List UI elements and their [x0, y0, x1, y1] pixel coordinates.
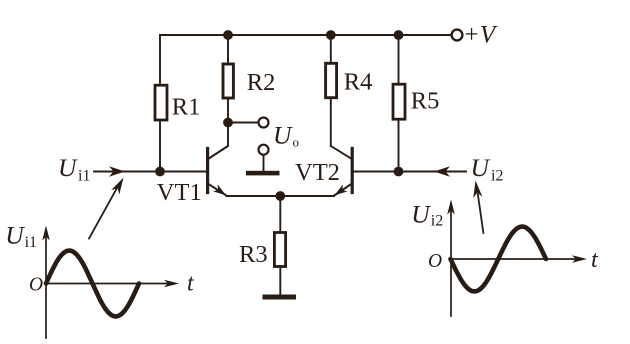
resistor R4 — [326, 63, 337, 97]
wire: R2 branch (rail to collector node) — [227, 35, 229, 123]
wire: +V supply top rail — [160, 34, 451, 36]
svg-text:U: U — [471, 153, 491, 182]
node: R5 to VT2 base junction — [394, 167, 404, 177]
svg-text:U: U — [273, 121, 293, 150]
svg-text:U: U — [5, 221, 25, 250]
svg-text:t: t — [187, 270, 195, 296]
waveform: Ui2 sine (negative first) — [451, 227, 547, 292]
svg-text:U: U — [58, 153, 78, 182]
svg-text:VT1: VT1 — [157, 179, 202, 206]
node: emitter junction to R3 — [275, 191, 285, 201]
svg-text:O: O — [428, 251, 442, 272]
wire: R4 branch (rail to VT2 collector elbow) — [330, 35, 332, 146]
svg-text:i2: i2 — [491, 168, 503, 185]
arrow: Ui2 input direction — [434, 166, 450, 176]
resistor R3 — [274, 233, 285, 267]
svg-text:R5: R5 — [411, 87, 440, 114]
svg-text:+V: +V — [465, 22, 498, 49]
axis: Ui2 horizontal (t) — [451, 258, 577, 260]
wire: VT1 base input — [94, 171, 206, 173]
transistor VT1 — [208, 146, 228, 195]
axis: Ui1 horizontal (t) — [46, 283, 169, 285]
resistor R5 — [393, 84, 405, 119]
svg-text:U: U — [411, 200, 431, 229]
svg-text:i1: i1 — [25, 234, 37, 251]
resistor R2 — [223, 64, 233, 98]
wire: emitter node to R3 and ground — [279, 196, 281, 295]
svg-text:R3: R3 — [239, 241, 268, 268]
wire: lower output terminal stub — [263, 155, 265, 171]
svg-text:o: o — [293, 135, 300, 150]
ground: emitter return bar — [263, 295, 297, 300]
svg-text:O: O — [29, 274, 43, 295]
terminal: +V supply — [452, 30, 463, 41]
svg-text:R1: R1 — [172, 94, 201, 121]
wire: common emitter rail — [227, 195, 335, 197]
node: R1 to VT1 base junction — [155, 167, 165, 177]
arrow: annotation Ui1 waveform to input — [89, 188, 117, 239]
terminal: Uo lower — [259, 145, 269, 155]
terminal: Uo upper — [259, 118, 269, 128]
wire: VT2 base input — [354, 171, 466, 173]
wire: R5 branch (rail to VT2 base node) — [398, 35, 400, 172]
transistor VT2 — [331, 146, 352, 195]
svg-text:i2: i2 — [431, 213, 443, 230]
axis: Ui2 vertical — [450, 209, 452, 316]
node: rail junction at R4 — [326, 30, 336, 40]
ground: output reference bar — [246, 171, 280, 176]
node: collector output junction — [223, 118, 233, 128]
svg-text:R2: R2 — [247, 69, 276, 96]
node: rail junction at R2 — [223, 30, 233, 40]
svg-text:R4: R4 — [344, 69, 373, 96]
arrow: annotation Ui2 waveform to input — [478, 194, 484, 233]
wire: collector node to upper output terminal — [228, 122, 259, 124]
svg-text:i1: i1 — [78, 168, 90, 185]
waveform: Ui1 sine (positive first) — [46, 251, 139, 317]
resistor R1 — [155, 85, 167, 120]
node: rail junction at R5 — [394, 30, 404, 40]
wire: VT1 collector (node down and into bar) — [209, 123, 228, 159]
svg-text:t: t — [591, 247, 599, 273]
wire: R1 branch (rail to VT1 base node) — [159, 35, 161, 172]
axis: Ui1 vertical — [45, 235, 47, 338]
svg-text:VT2: VT2 — [295, 159, 340, 186]
arrow: Ui1 input direction — [109, 166, 125, 176]
